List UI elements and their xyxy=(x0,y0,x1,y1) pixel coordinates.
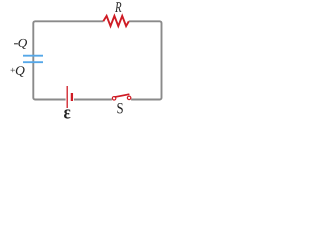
capacitor C top plate xyxy=(23,55,43,57)
wire gap for switch xyxy=(112,95,131,104)
label emf xyxy=(64,109,70,118)
battery long plate xyxy=(66,86,68,108)
switch contact left xyxy=(112,97,116,101)
resistor R1 xyxy=(103,16,129,26)
label +Q xyxy=(11,68,16,72)
label R xyxy=(115,2,121,12)
switch contact right xyxy=(127,96,131,100)
battery short plate xyxy=(71,93,73,101)
wire loop xyxy=(33,21,161,99)
wire gap for battery xyxy=(66,95,74,104)
capacitor C bottom plate xyxy=(23,61,43,63)
wire gap for resistor xyxy=(103,17,129,26)
switch blade xyxy=(115,94,130,97)
label S xyxy=(117,103,122,113)
label -Q xyxy=(14,42,18,45)
